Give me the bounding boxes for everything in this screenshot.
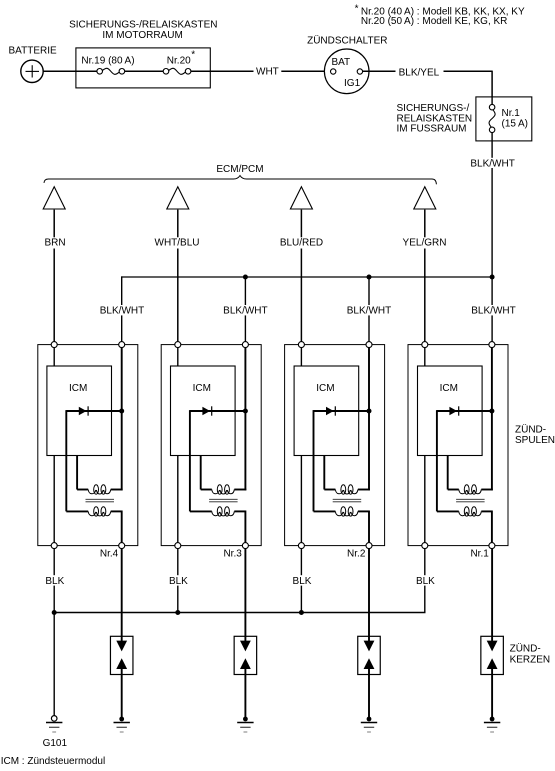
terminal bottom-left coil Nr.1 [422,543,428,549]
ground symbol plug Nr.3 [237,723,253,733]
wire diode anode drop to secondary Nr.2 [313,410,315,511]
svg-text:BLK: BLK [45,576,64,587]
battery B1 positive terminal symbol [21,60,43,82]
svg-text:Nr.20: Nr.20 [167,56,191,67]
fuse Nr.20 [163,68,191,74]
ground symbol plug Nr.1 [484,723,500,733]
transformer core coil Nr.1 [456,499,485,502]
wire into fuse Nr.1 [491,97,493,105]
svg-text:BLK: BLK [169,576,188,587]
junction bus / coil Nr.3 drop [243,275,248,280]
svg-text:SPULEN: SPULEN [515,435,555,446]
terminal top-right coil Nr.2 [366,342,372,348]
svg-text:BLK/WHT: BLK/WHT [471,306,515,317]
wire ICM Nr.4 switch output to primary [76,456,78,490]
svg-text:G101: G101 [43,738,68,749]
fuse Nr.1 (15 A) [489,104,495,132]
label BLK/WHT coil Nr.2 feed [346,305,392,317]
ECM/PCM connector terminal 1 (triangle) [43,187,65,209]
terminal top-left coil Nr.4 [51,342,57,348]
svg-text:ZÜND-: ZÜND- [515,423,546,435]
ECM/PCM connector terminal 2 (triangle) [167,187,189,209]
label G101 [43,738,68,749]
wire coil Nr.4 secondary to spark plug [121,549,123,637]
label BLK/YEL [399,67,440,78]
svg-text:ZÜND-: ZÜND- [510,643,541,655]
label WHT wire [256,66,279,77]
ECM/PCM connector terminal 3 (triangle) [290,187,312,209]
label Nr.4 [100,548,119,559]
ground G101 terminal ring [51,716,57,722]
wire drop to coil Nr.3 right terminal [244,277,246,342]
wire power right side coil Nr.3 [244,345,246,491]
wire drop to coil Nr.2 right terminal [368,277,370,342]
ignition coil unit Nr.4 outer box [38,345,138,546]
label ZUEND-SPULEN (ignition coils) [515,423,555,446]
label ICM unit Nr.1 [440,383,458,394]
label Nr.20 with asterisk [167,50,196,67]
label BAT [331,57,350,68]
svg-text:BLK/WHT: BLK/WHT [470,159,514,170]
svg-text:*: * [191,50,195,61]
spark plug Nr.4 gap electrodes [116,636,127,674]
wire diode anode drop to secondary Nr.4 [65,410,67,511]
svg-text:Nr.4: Nr.4 [100,548,119,559]
label Nr.1 (15 A) [502,108,528,129]
wire BLK coil Nr.2 ground lead [300,549,302,613]
ground symbol plug Nr.2 [361,723,377,733]
wire BLK coil Nr.1 ground lead [424,549,426,613]
diode D3 inside ICM Nr.3 [190,406,246,415]
terminal top-left coil Nr.2 [298,342,304,348]
label ICM unit Nr.3 [193,383,211,394]
transformer core coil Nr.4 [86,499,115,502]
wire coil Nr.3 secondary to spark plug [244,549,246,637]
wire ICM Nr.3 to ground terminal [177,456,179,543]
label Nr.19 (80 A) [81,56,134,67]
ground connection dot plug Nr.4 [119,717,124,722]
ignition coil unit Nr.1 outer box [408,345,508,546]
label BLK/WHT coil Nr.3 feed [222,305,268,317]
svg-text:BLK/WHT: BLK/WHT [347,306,391,317]
label BLK/WHT coil Nr.1 feed [471,305,517,317]
svg-text:Nr.20 (50 A) : Modell KE, KG,: Nr.20 (50 A) : Modell KE, KG, KR [361,16,508,27]
svg-text:Nr.1: Nr.1 [502,108,521,119]
coil Nr.4 ICM module box [47,366,112,456]
wire to ground G101 [53,613,55,716]
svg-text:BLK/WHT: BLK/WHT [223,306,267,317]
wire power right side coil Nr.4 [121,345,123,491]
wire spark plug Nr.3 to engine ground [244,675,246,720]
terminal bottom-right coil Nr.4 [119,543,125,549]
spark plug Nr.3 box [234,636,257,674]
diode D2 inside ICM Nr.2 [314,406,370,415]
terminal top-left coil Nr.1 [422,342,428,348]
fuse Nr.19 (80 A) [97,68,125,74]
label SICHERUNGS-/RELAISKASTEN IM FUSSRAUM [397,103,473,134]
svg-text:ICM : Zündsteuermodul: ICM : Zündsteuermodul [1,756,106,767]
wire BLK/WHT fuse Nr.1 down to bus [491,133,493,278]
terminal bottom-right coil Nr.1 [489,543,495,549]
bus ground BLK horizontal [54,612,425,614]
terminal bottom-right coil Nr.3 [242,543,248,549]
spark plug Nr.4 box [110,636,133,674]
wire signal into ICM Nr.2 [300,345,302,366]
terminal top-right coil Nr.4 [119,342,125,348]
wire BRN from ECM to coil Nr.4 [53,210,55,342]
svg-text:BAT: BAT [331,57,350,68]
wire diode anode drop to secondary Nr.3 [189,410,191,511]
svg-text:BATTERIE: BATTERIE [9,46,57,57]
ground connection dot plug Nr.3 [243,717,248,722]
ignition switch terminal IG1 [357,69,362,74]
wire spark plug Nr.2 to engine ground [368,675,370,720]
wire ICM Nr.4 to ground terminal [53,456,55,543]
svg-text:BLK: BLK [416,576,435,587]
svg-text:ICM: ICM [69,383,87,394]
label Nr.1 [470,548,489,559]
label BLK 3 [291,575,312,587]
junction ground bus / coil Nr.3 lead [175,610,180,615]
wire BLK coil Nr.4 ground lead [53,549,55,613]
wire spark plug Nr.4 to engine ground [121,675,123,720]
bus BLK/WHT horizontal distribution [122,276,492,278]
terminal bottom-left coil Nr.4 [51,543,57,549]
ground connection dot plug Nr.1 [490,717,495,722]
junction diode output / power wire Nr.4 [119,409,124,414]
label ICM unit Nr.4 [69,383,87,394]
terminal bottom-right coil Nr.2 [366,543,372,549]
label SICHERUNGS-/RELAISKASTEN IM MOTORRAUM [69,20,217,41]
wire WHT/BLU from ECM to coil Nr.3 [177,210,179,342]
coil Nr.1 ICM module box [418,366,483,456]
primary winding L2a coil Nr.2 [324,485,370,494]
ground connection dot plug Nr.2 [367,717,372,722]
svg-text:ECM/PCM: ECM/PCM [216,164,263,175]
transformer core coil Nr.2 [333,499,362,502]
svg-text:ZÜNDSCHALTER: ZÜNDSCHALTER [307,35,387,47]
wire ICM Nr.1 switch output to primary [447,456,449,490]
secondary winding L2b coil Nr.2 [314,507,370,543]
svg-text:IM MOTORRAUM: IM MOTORRAUM [102,30,182,41]
svg-text:KERZEN: KERZEN [510,654,551,665]
note ICM : Zuendsteuermodul [1,756,106,767]
wire ICM Nr.2 switch output to primary [323,456,325,490]
svg-text:BLK/WHT: BLK/WHT [100,306,144,317]
label BLU/RED [278,237,326,248]
diode D1 inside ICM Nr.1 [437,406,492,415]
junction diode output / power wire Nr.2 [367,409,372,414]
ground G101 symbol [46,723,62,733]
wire signal into ICM Nr.1 [424,345,426,366]
coil Nr.3 ICM module box [171,366,236,456]
junction ground bus / G101 lead [52,610,57,615]
wire BLK coil Nr.3 ground lead [177,549,179,613]
wire power right side coil Nr.1 [491,345,493,491]
spark plug Nr.2 gap electrodes [364,636,375,674]
fuse/relay box engine compartment (SICHERUNGS-/RELAISKASTEN IM MOTORRAUM) [76,48,210,88]
label Nr.3 [223,548,242,559]
wire BLK/YEL ignition switch to fuse box footwell [363,71,493,97]
label BATTERIE [9,46,57,57]
wire ICM Nr.1 to ground terminal [424,456,426,543]
fuse/relay box footwell (SICHERUNGS-/RELAISKASTEN IM FUSSRAUM) [476,97,532,141]
svg-text:YEL/GRN: YEL/GRN [403,238,447,249]
ignition switch terminal BAT [331,69,336,74]
wire coil Nr.1 secondary to spark plug [491,549,493,637]
wire drop to coil Nr.4 right terminal [121,276,123,341]
spark plug Nr.1 box [481,636,504,674]
wire YEL/GRN from ECM to coil Nr.1 [424,210,426,342]
label WHT/BLU [153,237,201,248]
wire ICM Nr.2 to ground terminal [300,456,302,543]
label ICM unit Nr.2 [316,383,334,394]
terminal top-right coil Nr.3 [242,342,248,348]
junction bus / coil Nr.2 drop [367,275,372,280]
svg-text:Nr.19 (80 A): Nr.19 (80 A) [81,56,134,67]
svg-text:IG1: IG1 [344,78,361,89]
label BLK 1 [44,575,65,587]
transformer core coil Nr.3 [209,499,238,502]
primary winding L1a coil Nr.1 [448,485,493,494]
svg-text:BLU/RED: BLU/RED [280,238,323,249]
label ECM/PCM [216,164,263,175]
junction diode output / power wire Nr.3 [243,409,248,414]
label BRN [31,237,79,248]
wire signal into ICM Nr.4 [53,345,55,366]
ground symbol plug Nr.4 [114,723,130,733]
wire WHT fuse box to ignition switch [191,70,331,72]
ECM/PCM connector terminal 4 (triangle) [414,187,436,209]
wire spark plug Nr.1 to engine ground [491,675,493,720]
label BLK/WHT main feed [470,158,515,170]
label Nr.2 [347,548,366,559]
wire ICM Nr.3 switch output to primary [200,456,202,490]
wire power right side coil Nr.2 [368,345,370,491]
svg-text:IM FUSSRAUM: IM FUSSRAUM [397,123,467,134]
wire signal into ICM Nr.3 [177,345,179,366]
label IG1 [344,78,361,89]
svg-text:BLK/YEL: BLK/YEL [399,67,440,78]
note asterisk footnote Nr.20 ratings [355,4,525,28]
primary winding L4a coil Nr.4 [77,485,123,494]
diode D4 inside ICM Nr.4 [66,406,121,415]
svg-text:BLK: BLK [293,576,312,587]
label BLK 2 [168,575,189,587]
svg-text:BRN: BRN [44,238,65,249]
wire diode anode drop to secondary Nr.1 [436,410,438,511]
wire fuse Nr.19 to fuse Nr.20 [125,70,164,72]
svg-text:WHT: WHT [256,66,279,77]
primary winding L3a coil Nr.3 [201,485,247,494]
wire BLU/RED from ECM to coil Nr.2 [300,210,302,342]
ignition switch ZUENDSCHALTER body [324,49,369,94]
terminal top-left coil Nr.3 [175,342,181,348]
label ZUENDSCHALTER [307,35,387,47]
spark plug Nr.3 gap electrodes [240,636,251,674]
brace ECM/PCM [44,176,436,185]
secondary winding L4b coil Nr.4 [66,507,121,543]
ignition coil unit Nr.3 outer box [161,345,261,546]
svg-text:ICM: ICM [193,383,211,394]
svg-text:WHT/BLU: WHT/BLU [155,238,200,249]
spark plug Nr.2 box [358,636,381,674]
terminal top-right coil Nr.1 [489,342,495,348]
terminal bottom-left coil Nr.2 [298,543,304,549]
svg-text:(15 A): (15 A) [502,119,528,130]
svg-text:Nr.2: Nr.2 [347,548,366,559]
svg-text:Nr.1: Nr.1 [470,548,489,559]
wire drop to coil Nr.1 right terminal [491,277,493,342]
label BLK 4 [415,575,436,587]
svg-text:*: * [355,4,359,15]
secondary winding L3b coil Nr.3 [190,507,246,543]
svg-text:ICM: ICM [440,383,458,394]
junction bus / main feed [490,275,495,280]
label ZUEND-KERZEN (spark plugs) [510,643,551,666]
ignition coil unit Nr.2 outer box [285,345,385,546]
wire battery to fuse Nr.19 [43,70,97,72]
secondary winding L1b coil Nr.1 [437,507,492,543]
svg-text:Nr.3: Nr.3 [223,548,242,559]
label BLK/WHT coil Nr.4 feed [99,305,145,317]
svg-text:ICM: ICM [316,383,334,394]
terminal bottom-left coil Nr.3 [175,543,181,549]
wire coil Nr.2 secondary to spark plug [368,549,370,637]
label YEL/GRN [401,237,449,248]
junction ground bus / coil Nr.2 lead [299,610,304,615]
junction diode output / power wire Nr.1 [489,409,494,414]
coil Nr.2 ICM module box [294,366,359,456]
spark plug Nr.1 gap electrodes [487,636,498,674]
